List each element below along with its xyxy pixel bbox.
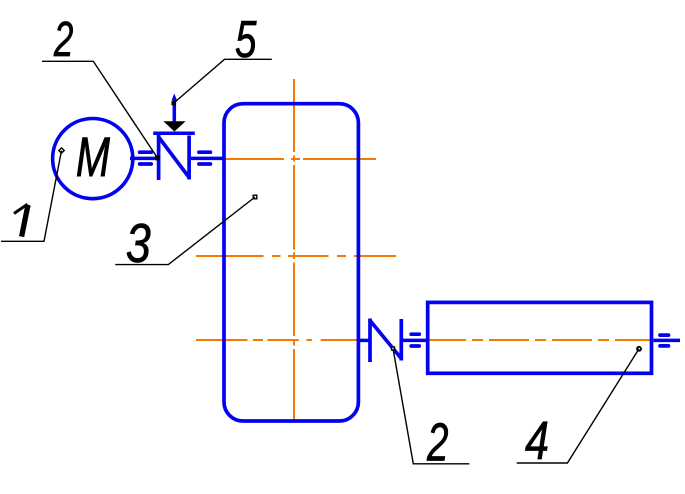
gearbox 3 (housing) [224,104,358,421]
svg-text:3: 3 [126,213,151,274]
motor 1 (electric motor circle) [53,119,133,199]
label 2 top leader (to left coupling) [42,61,158,158]
label 2 top leader dot [155,156,160,161]
wire shaft: coupling to drum [403,339,428,343]
motor letter M [76,126,111,188]
label 2 bottom leader (to right coupling) [393,349,469,464]
svg-text:4: 4 [525,411,549,471]
label 4 leader (to drum) [517,349,639,463]
svg-text:5: 5 [235,11,257,69]
label 5 leader (to brake arrow) [174,59,272,103]
svg-text:M: M [76,126,111,188]
coupling 2 (left, N symbol) [159,135,190,180]
label 1 leader (to motor) [1,151,62,242]
wire shaft: coupling to gearbox [191,157,224,161]
label 3 leader dot [253,195,257,199]
shaft joint marks (=) at drum right stub [660,335,669,346]
label 2 top text [53,13,73,67]
shaft joint marks (=) right of coupling 2 [199,152,211,164]
wire shaft: drum right stub [654,339,681,343]
centerline vertical (gearbox axis) [293,79,295,420]
shaft joint marks (=) right of coupling (drum side) [411,334,419,346]
svg-text:2: 2 [426,413,448,472]
drum 4 (roller) [428,302,652,373]
brake arrow 5 (blue stem) [172,94,177,124]
centerline horizontal middle (intermediate axis) [196,255,396,257]
label 5 leader dot [172,101,177,106]
label 3 leader (to gearbox) [115,197,255,265]
centerline horizontal top (motor shaft axis) [224,158,376,160]
label 4 text [525,411,549,471]
wire shaft: gearbox to right coupling [360,339,370,343]
brake cap over coupling [153,131,195,135]
label 1 leader dot [59,148,64,153]
label 4 leader dot [637,347,641,351]
coupling 2 (right, N symbol) [370,319,401,363]
label 2 bottom text [426,413,448,472]
shaft joint marks (=) left of coupling 2 [140,152,152,164]
centerline horizontal bottom (drum axis) [196,339,652,341]
label 2 bottom leader dot [391,346,395,350]
label 1 text [14,204,28,236]
label 5 text [235,11,257,69]
svg-text:2: 2 [53,13,73,67]
wire shaft: motor to left coupling [130,157,158,161]
label 3 text [126,213,151,274]
brake arrow head (black) [163,121,185,131]
